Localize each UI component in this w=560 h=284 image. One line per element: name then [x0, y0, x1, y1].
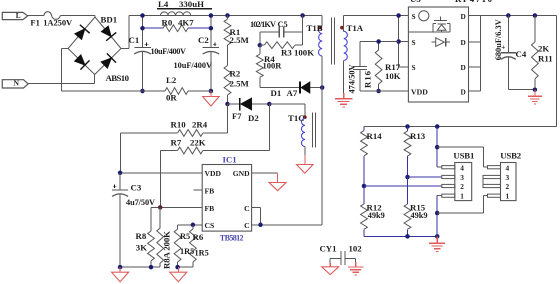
- resistor R8: [148, 207, 155, 267]
- resistor R8A: [157, 207, 164, 267]
- resistor R0: [163, 25, 188, 32]
- junction: [267, 102, 272, 107]
- svg-text:2: 2: [506, 182, 510, 191]
- svg-text:C: C: [244, 221, 249, 230]
- transformer winding T1C: [301, 118, 305, 146]
- wire T1A top: [344, 16, 399, 32]
- svg-text:22K: 22K: [190, 138, 206, 148]
- svg-text:BD1: BD1: [101, 14, 118, 24]
- label R13: [410, 131, 426, 141]
- junction: [225, 13, 230, 18]
- svg-text:2: 2: [460, 182, 464, 191]
- resistor R12: [361, 186, 368, 236]
- label D2: [248, 113, 259, 123]
- svg-text:R7: R7: [171, 138, 182, 148]
- svg-text:1A250V: 1A250V: [43, 17, 73, 27]
- wire R7 line: [161, 104, 270, 207]
- connector USB1 pins: [460, 163, 464, 200]
- svg-text:T1B: T1B: [307, 23, 323, 33]
- phase dot T1A: [340, 26, 344, 30]
- ic U3 box: [408, 7, 468, 102]
- phase dot T1C: [303, 115, 307, 119]
- svg-text:FB: FB: [205, 204, 215, 213]
- junction: [320, 85, 325, 90]
- svg-text:4: 4: [506, 163, 510, 172]
- svg-text:ABS10: ABS10: [106, 73, 130, 83]
- svg-text:1: 1: [460, 191, 464, 200]
- svg-text:A7: A7: [287, 88, 298, 98]
- svg-text:3: 3: [506, 173, 510, 182]
- capacitor C1: [134, 42, 151, 54]
- svg-text:474/50V: 474/50V: [348, 65, 357, 94]
- diode D1 A7: [300, 82, 310, 94]
- resistor R14: [361, 127, 368, 187]
- svg-text:R2: R2: [230, 69, 241, 79]
- svg-text:10K: 10K: [385, 71, 401, 81]
- svg-text:1R5: 1R5: [195, 249, 209, 258]
- wire snubber right: [302, 16, 304, 46]
- svg-text:CY1: CY1: [320, 244, 337, 254]
- label R1 2.5M: [230, 27, 250, 45]
- resistor R1: [224, 16, 231, 66]
- label R8 3K: [136, 231, 148, 253]
- wire bridge left to bottom rail: [61, 49, 68, 92]
- ground earth USB: [429, 236, 445, 251]
- capacitor CY1: [330, 251, 356, 265]
- svg-text:D: D: [461, 87, 466, 96]
- wire D+ line: [408, 175, 455, 178]
- svg-text:N: N: [14, 79, 20, 88]
- svg-text:R16: R16: [363, 70, 373, 88]
- label 1R5 1R5: [180, 247, 209, 258]
- svg-text:R5: R5: [180, 232, 190, 241]
- ground CY1 left: [322, 267, 339, 275]
- svg-text:D: D: [461, 63, 466, 72]
- junction: [405, 175, 410, 180]
- label R17 10K: [385, 62, 401, 81]
- svg-text:C4: C4: [516, 49, 527, 59]
- wire D2 line: [228, 103, 270, 105]
- label R0 4K7: [162, 17, 195, 27]
- svg-text:R8: R8: [136, 231, 147, 241]
- svg-text:C2: C2: [198, 35, 209, 45]
- wire vcc rail: [360, 41, 399, 43]
- svg-text:R6: R6: [193, 232, 204, 242]
- svg-text:L: L: [16, 11, 21, 20]
- label USB2: [500, 150, 522, 160]
- label R7 22K: [171, 138, 206, 148]
- svg-text:T1C: T1C: [288, 113, 305, 123]
- label ABS10: [106, 73, 130, 83]
- wire T1C bottom: [304, 147, 306, 165]
- resistor L2 0R: [165, 88, 188, 95]
- resistor R7: [178, 147, 203, 154]
- wire USB1 pin1: [437, 194, 455, 236]
- capacitor C5: [260, 27, 303, 38]
- label 10uF/400V: [151, 47, 187, 56]
- wire FB stub: [193, 189, 202, 191]
- junction: [209, 89, 214, 94]
- pin labels IC1 right: [233, 169, 250, 230]
- label R2 2.5M: [230, 69, 250, 89]
- resistor R13: [404, 127, 411, 178]
- label L2: [166, 75, 177, 85]
- svg-text:F7: F7: [232, 111, 242, 121]
- phase dot T1B: [318, 26, 322, 30]
- ground earth T1A: [335, 99, 353, 107]
- wire ground bus: [120, 266, 160, 268]
- svg-text:100K: 100K: [294, 47, 314, 57]
- svg-text:C5: C5: [278, 20, 288, 29]
- svg-text:4: 4: [460, 163, 464, 172]
- capacitor C3: [112, 173, 128, 267]
- wire output line: [364, 126, 557, 128]
- svg-text:S: S: [412, 38, 416, 47]
- wire bridge out: [121, 16, 129, 49]
- svg-text:CS: CS: [205, 221, 215, 230]
- pin labels U3 D: [461, 12, 466, 97]
- svg-text:GND: GND: [233, 169, 250, 178]
- inductor L4: [160, 12, 190, 16]
- wire D pins: [469, 16, 481, 92]
- ic U3 circle: [419, 11, 429, 21]
- label C5: [278, 20, 288, 29]
- label 4u7/50V: [126, 198, 155, 207]
- wire USB2 pins 3-2: [483, 175, 501, 187]
- resistor R4: [256, 45, 263, 87]
- resistor R2: [224, 66, 231, 105]
- connector USB1 box: [455, 163, 472, 201]
- junction: [175, 265, 180, 270]
- label T1B: [307, 23, 323, 33]
- wire USB2 pin1: [437, 194, 500, 213]
- svg-text:C1: C1: [129, 35, 140, 45]
- wire CY1 right: [355, 259, 357, 267]
- wire CY1 left: [329, 259, 331, 267]
- ground R5R6: [170, 267, 187, 282]
- junction: [140, 89, 145, 94]
- resistor R15: [404, 177, 411, 236]
- junction: [191, 223, 196, 228]
- label L4 330uH: [157, 0, 212, 9]
- svg-text:4K7: 4K7: [178, 17, 194, 27]
- pin labels U3 S: [412, 12, 416, 72]
- svg-text:T1A: T1A: [347, 23, 364, 33]
- svg-text:D1: D1: [271, 88, 282, 98]
- svg-text:IC1: IC1: [223, 155, 237, 165]
- svg-text:2R4: 2R4: [192, 119, 208, 129]
- svg-text:49k9: 49k9: [368, 211, 385, 220]
- resistor R17: [375, 42, 382, 92]
- ground T1C: [297, 165, 314, 174]
- connector USB2 pins: [506, 163, 510, 200]
- svg-text:102: 102: [349, 244, 363, 254]
- svg-text:R10: R10: [171, 119, 187, 129]
- svg-text:0R: 0R: [166, 93, 177, 103]
- label R14: [367, 131, 383, 141]
- ic IC1 box: [202, 165, 251, 232]
- ground primary: [203, 91, 220, 106]
- wire N to bridge bottom: [28, 75, 95, 84]
- label BD1: [101, 14, 118, 24]
- junction: [225, 102, 230, 107]
- junction: [209, 13, 214, 30]
- svg-text:102/1KV: 102/1KV: [250, 20, 276, 29]
- wire D- line: [364, 184, 455, 187]
- wire D1 line: [260, 87, 322, 89]
- label 102/1KV: [250, 20, 276, 29]
- ground earth C4: [528, 90, 542, 104]
- junction: [362, 184, 367, 189]
- capacitor C4: [501, 16, 535, 90]
- label 102: [349, 244, 363, 254]
- label C1: [129, 35, 140, 45]
- wire VDD line: [120, 172, 202, 174]
- label TB5812: [220, 233, 244, 242]
- junction: [376, 39, 381, 93]
- label C2: [198, 35, 209, 45]
- svg-text:R0: R0: [162, 17, 173, 27]
- svg-text:S: S: [412, 12, 416, 21]
- transformer core T1C: [313, 113, 316, 148]
- svg-text:S: S: [412, 63, 416, 72]
- svg-text:R14: R14: [367, 131, 383, 141]
- wire C2 column: [210, 16, 212, 92]
- svg-text:C: C: [244, 204, 249, 213]
- svg-text:VDD: VDD: [205, 169, 222, 178]
- svg-text:FB: FB: [205, 187, 215, 196]
- ground IC1: [269, 173, 286, 191]
- junction: [506, 13, 537, 18]
- svg-text:C3: C3: [131, 183, 142, 193]
- wire C pins: [252, 88, 323, 225]
- transformer winding T1A: [344, 31, 348, 60]
- wire bottom rail: [61, 90, 211, 92]
- resistor R5: [174, 225, 181, 267]
- junction: [405, 234, 439, 239]
- label R16: [363, 70, 373, 88]
- label D1 A7: [271, 88, 298, 98]
- ground earth CY1 right: [348, 267, 364, 275]
- svg-text:10uF/400V: 10uF/400V: [151, 47, 187, 56]
- resistor R10: [178, 130, 203, 137]
- wire T1A bottom: [343, 60, 345, 98]
- label IC1: [223, 155, 237, 165]
- label R8A 200K: [161, 231, 171, 269]
- label 474/50V: [348, 65, 357, 94]
- pin label U3 VDD: [411, 87, 428, 96]
- capacitor 474/50V: [353, 42, 367, 92]
- connector USB2 box: [501, 163, 517, 201]
- transformer core: [331, 18, 334, 65]
- label F7: [232, 111, 242, 121]
- resistor R11: [532, 16, 539, 90]
- wire T1B top: [321, 16, 323, 27]
- junction: [396, 13, 401, 44]
- svg-text:2.5M: 2.5M: [230, 35, 250, 45]
- wire USB1 pin4: [437, 127, 455, 169]
- label R15 49k9: [410, 202, 428, 220]
- svg-text:49k9: 49k9: [411, 211, 428, 220]
- wire L to fuse: [28, 15, 44, 17]
- junction: [118, 171, 123, 176]
- wire output gnd line: [364, 235, 437, 237]
- label 2K R11: [538, 44, 553, 64]
- ground C3: [112, 267, 129, 282]
- svg-text:R13: R13: [410, 131, 426, 141]
- wire GND stub: [252, 172, 278, 174]
- fuse F1: [30, 12, 73, 28]
- junction: [405, 124, 439, 129]
- bridge rectifier BD1: [68, 16, 121, 75]
- junction: [140, 13, 145, 30]
- svg-text:680uF/6.3V: 680uF/6.3V: [494, 19, 503, 60]
- svg-text:D: D: [461, 38, 466, 47]
- connector J1 pin L: [2, 11, 27, 20]
- label 0R: [166, 93, 177, 103]
- label U3 (cut off): [410, 0, 493, 4]
- wire R0 branch: [143, 27, 211, 29]
- label USB1: [453, 150, 474, 160]
- transformer winding T1B: [318, 26, 322, 56]
- junction: [300, 13, 305, 18]
- label C3: [131, 183, 142, 193]
- junction: [118, 265, 153, 270]
- ic U3 mosfet: [409, 16, 450, 32]
- svg-text:TB5812: TB5812: [220, 233, 244, 242]
- label R10 2R4: [171, 119, 208, 129]
- svg-text:2K: 2K: [538, 44, 549, 54]
- wire +V line: [481, 16, 557, 127]
- pin labels IC1 left: [205, 169, 222, 230]
- wire top rail B: [129, 15, 322, 17]
- label R3 100K: [281, 47, 314, 57]
- svg-text:1R5: 1R5: [180, 247, 194, 256]
- junction: [435, 145, 440, 150]
- wire R10 line: [121, 104, 228, 173]
- junction: [533, 87, 538, 92]
- resistor R3: [260, 42, 303, 49]
- svg-text:3: 3: [460, 173, 464, 182]
- junction: [258, 43, 263, 48]
- svg-text:F1: F1: [30, 17, 39, 27]
- svg-text:3K: 3K: [136, 243, 147, 253]
- svg-text:1: 1: [506, 191, 510, 200]
- svg-text:U3: U3: [410, 0, 421, 4]
- wire snubber left: [259, 32, 261, 45]
- svg-text:330uH: 330uH: [179, 0, 204, 9]
- svg-text:100R: 100R: [263, 61, 283, 71]
- svg-text:RF4710: RF4710: [455, 0, 493, 4]
- wire T1C top: [269, 104, 305, 118]
- wire CS line: [178, 224, 203, 226]
- ic U3 body diode: [432, 38, 451, 47]
- label R5 R6: [180, 232, 204, 242]
- label R4 100R: [263, 54, 283, 71]
- svg-text:R8A 200K: R8A 200K: [161, 231, 171, 269]
- label R12 49k9: [367, 202, 385, 220]
- svg-text:VDD: VDD: [411, 87, 428, 96]
- svg-text:USB1: USB1: [453, 150, 474, 160]
- wire vdd line: [360, 90, 408, 92]
- label T1C: [288, 113, 305, 123]
- svg-text:10uF/400V: 10uF/400V: [174, 61, 213, 70]
- svg-text:D2: D2: [248, 113, 259, 123]
- connector J1 pin N: [2, 79, 28, 88]
- svg-text:D: D: [461, 12, 466, 21]
- wire S pins: [399, 16, 409, 67]
- junction: [158, 205, 163, 210]
- label 10uF/400V: [174, 61, 213, 70]
- wire C1 column: [142, 16, 144, 92]
- diode D2: [240, 98, 252, 111]
- capacitor C2: [203, 42, 220, 54]
- resistor R6: [190, 225, 197, 267]
- wire T1B bottom to drain: [321, 56, 323, 225]
- label 680uF/6.3V: [494, 19, 503, 60]
- wire top rail A: [60, 15, 95, 17]
- svg-text:L2: L2: [166, 75, 177, 85]
- svg-text:4u7/50V: 4u7/50V: [126, 198, 155, 207]
- wire USB2 pin4: [437, 147, 500, 169]
- label CY1: [320, 244, 337, 254]
- svg-text:R11: R11: [538, 54, 553, 64]
- wire R5R6 ground bus: [178, 266, 193, 268]
- svg-text:R3: R3: [281, 47, 292, 57]
- junction: [435, 211, 440, 216]
- junction: [258, 223, 263, 228]
- label C4: [516, 49, 527, 59]
- wire FB line: [151, 206, 202, 208]
- svg-text:USB2: USB2: [500, 150, 522, 160]
- label T1A: [347, 23, 364, 33]
- svg-text:2.5M: 2.5M: [230, 79, 250, 89]
- svg-text:L4: L4: [158, 0, 169, 9]
